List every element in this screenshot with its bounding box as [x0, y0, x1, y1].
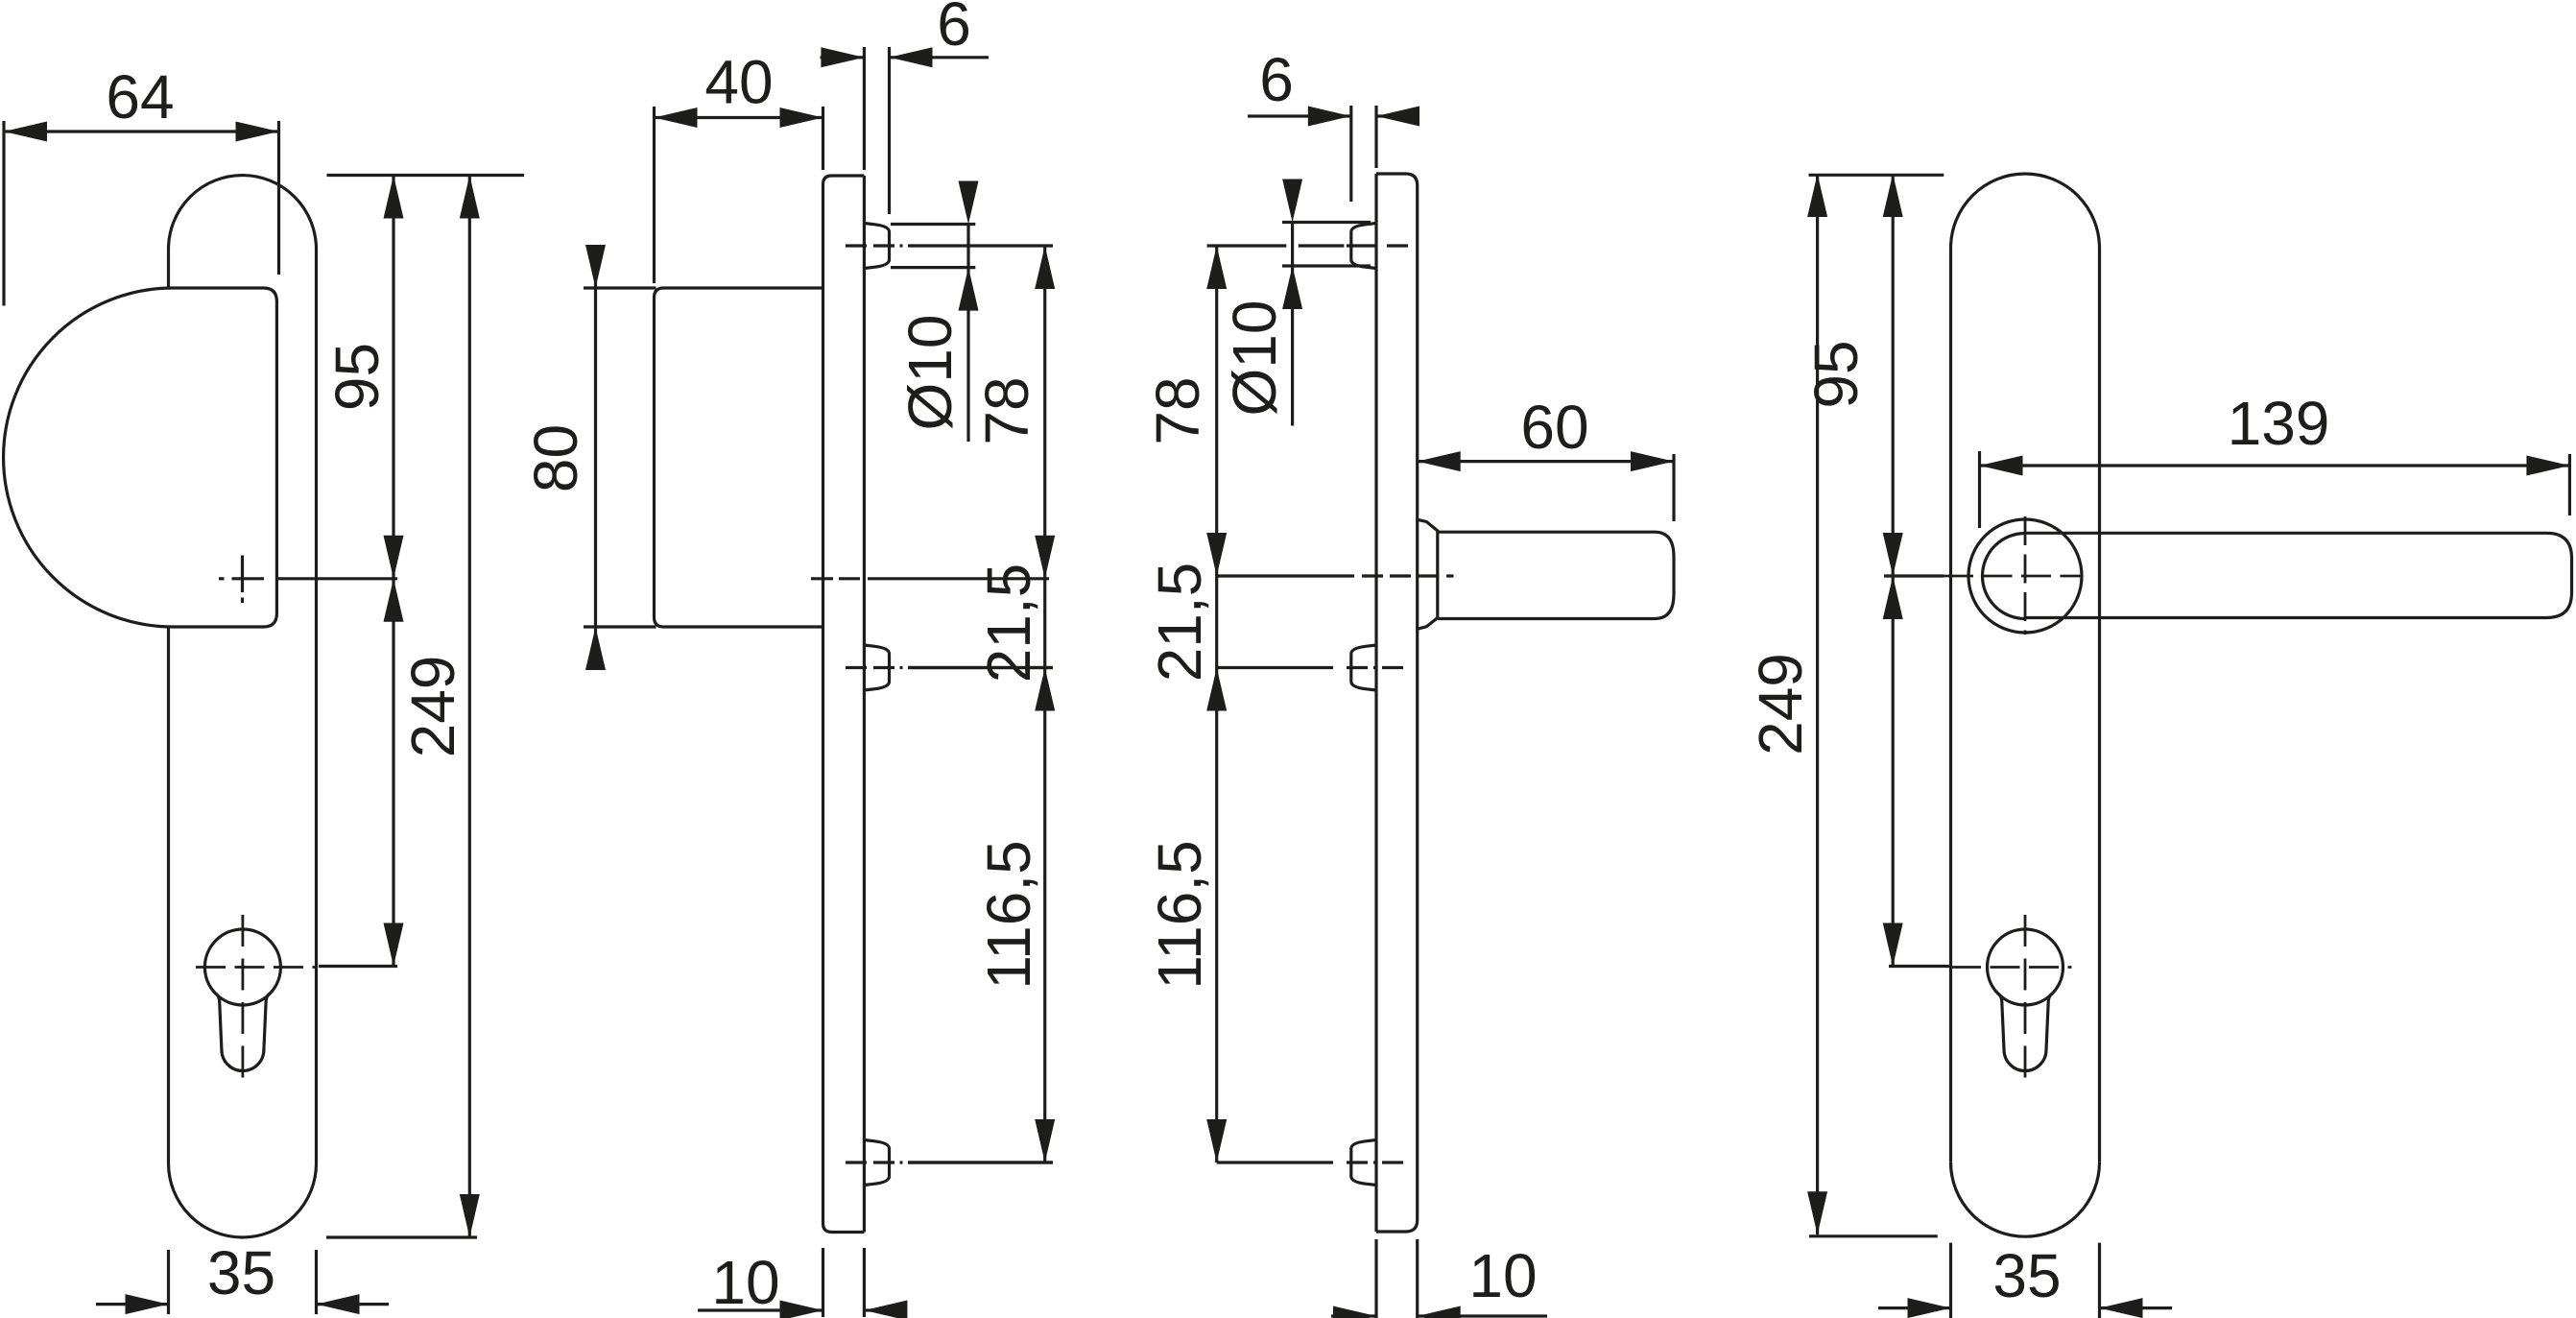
view1 spindle centre cross horizontal dot: [219, 577, 225, 580]
view4 plate outline top arch: [1951, 174, 2100, 249]
view1 dim 64 arrow right: [236, 122, 279, 142]
view3 lug3 centre line: [1217, 1161, 1333, 1163]
view1 keyhole slot: [216, 994, 270, 1070]
svg-text:139: 139: [2228, 389, 2330, 458]
view4 keyhole circle: [1988, 929, 2063, 1005]
view1 dim 35 arrow right: [317, 1294, 360, 1314]
view2 dim dia10 line top: [891, 223, 975, 226]
view2 dim 6 ext left: [863, 47, 866, 170]
view1 dim 249 top ext: [327, 174, 525, 177]
view2 dim 40 ext left: [653, 107, 656, 283]
view3 dim 60 arrow right: [1631, 451, 1674, 471]
svg-text:21,5: 21,5: [1145, 563, 1214, 683]
view1 dim 95 line: [392, 176, 394, 579]
view1 dim axis-keyhole arrow bottom: [384, 923, 404, 967]
view1 dim 35 arrow left: [126, 1294, 169, 1314]
view4 keyhole slot: [1998, 994, 2052, 1070]
view1 dim 249 line: [468, 176, 471, 1238]
view1 dim 95 arrow bottom: [384, 536, 404, 579]
view2 screw lug 3: [864, 1140, 889, 1186]
view4 dim 249 arrow bottom: [1807, 1191, 1827, 1234]
view4 dim 139 arrow left: [1980, 456, 2023, 476]
view3 dim 6 arrow right: [1376, 107, 1419, 127]
view4 dim 95 arrow top: [1883, 174, 1903, 217]
view3 dim dia10 arrow bottom: [1282, 266, 1302, 309]
view3 axis centre line: [1217, 574, 1354, 577]
view1 dim axis-keyhole arrow top: [384, 579, 404, 622]
view1 dim 35 line left: [96, 1303, 169, 1306]
view1 dim 249 bottom ext: [326, 1235, 477, 1238]
view3 dim 10 ext left: [1374, 1239, 1377, 1318]
svg-text:6: 6: [1259, 45, 1294, 114]
view2 screw lug 1: [864, 224, 889, 269]
view4 axis ext line: [1884, 574, 1944, 577]
view2 dim 10 ext right: [863, 1248, 866, 1317]
view3 grip side: [1438, 532, 1674, 618]
view4 dim 249 arrow top: [1807, 174, 1827, 217]
view3 lug2 centre line: [1217, 666, 1333, 669]
view1 dim 64 arrow left: [4, 122, 47, 142]
view4 dim 95 arrow bottom: [1883, 533, 1903, 576]
view4 dim 139 arrow right: [2526, 456, 2569, 476]
view2 dim dia10 vline: [966, 225, 969, 443]
view1 plate bottom arch: [169, 1163, 317, 1237]
view4 dim 35 arrow right: [2100, 1298, 2143, 1318]
view1 dim 35 ext right: [315, 1250, 318, 1314]
view3 plate side outline: [1376, 174, 1418, 1232]
view3 dim 78 line: [1215, 246, 1218, 1162]
view2 dim 40 arrow right: [780, 108, 823, 128]
view2 dim 6 line left: [821, 56, 865, 59]
view2 screw lug 2: [864, 645, 889, 690]
view3 dim 6 ext left: [1349, 106, 1352, 202]
view3 dim dia10 line bottom: [1282, 264, 1371, 267]
view4 boss centre line vertical: [2024, 516, 2027, 635]
view1 plate left edge lower: [167, 627, 170, 1163]
view2 lug2 ext line: [908, 666, 1053, 669]
view4 plate bottom arch: [1951, 1162, 2100, 1237]
view4 dim 139 ext right: [2568, 454, 2571, 515]
view3 handle collar: [1418, 519, 1438, 629]
view3 dim 60 arrow left: [1418, 451, 1461, 471]
svg-text:10: 10: [711, 1248, 779, 1317]
svg-text:21,5: 21,5: [974, 563, 1043, 683]
view3 dim 10 ext right: [1416, 1239, 1419, 1318]
view2 dim 6 ext right: [888, 47, 891, 214]
view2 plate right edge: [863, 176, 866, 1233]
view2 dim 10 line left: [698, 1308, 823, 1311]
view1 dim 249 arrow top: [460, 176, 480, 219]
view2 dim 80 ext top: [584, 286, 656, 289]
view1 keyhole centre line vertical: [241, 915, 244, 1090]
view2 screw lug 2 centre line: [846, 666, 867, 669]
svg-text:80: 80: [521, 424, 590, 492]
view2 hourglass arrow down at axis: [1035, 536, 1055, 579]
view2 knob side outline: [655, 288, 823, 627]
view3 dim 6 arrow left: [1308, 107, 1351, 127]
view4 dim 249 line: [1816, 174, 1819, 1234]
view4 dim 35 line right: [2100, 1306, 2173, 1309]
view3 dim 6 ext right: [1374, 106, 1377, 168]
view1 keyhole circle: [204, 929, 280, 1005]
view3 dim 78 arrow top: [1206, 246, 1227, 289]
view4 dim axis-keyhole arrow top: [1883, 576, 1903, 619]
view2 screw lug 1 centre line: [846, 244, 867, 247]
view4 boss centre line horizontal: [1944, 575, 2083, 578]
view3 dim 10 line left: [1331, 1314, 1376, 1317]
view3 dim 10 arrow right: [1418, 1306, 1461, 1318]
view2 dim 6 arrow left: [821, 47, 864, 67]
svg-text:Ø10: Ø10: [895, 315, 965, 431]
view4 dim 249 bottom ext: [1809, 1234, 1938, 1237]
view4 dim 249 top ext: [1809, 174, 1944, 177]
view4 keyhole centre line vertical: [2024, 915, 2027, 1090]
view4 dim 35 ext left: [1949, 1243, 1952, 1318]
view1 axis extension line: [278, 577, 397, 580]
view3 dim dia10 line top: [1282, 221, 1371, 224]
view2 dim 6 arrow right: [890, 47, 933, 67]
view4 dim 35 arrow left: [1908, 1298, 1951, 1318]
view2 dim 80 arrow bottom: [585, 627, 606, 670]
view3 dim 10 line right: [1418, 1314, 1547, 1317]
view4 dim 139 ext left: [1978, 451, 1981, 528]
view2 dim 10 line right: [864, 1308, 907, 1311]
view3 dim 10 arrow left: [1333, 1306, 1376, 1318]
view4 dim axis-keyhole arrow bottom: [1883, 923, 1903, 967]
view4 dim 35 ext right: [2098, 1243, 2101, 1318]
view2 dim 80 ext bottom: [584, 625, 656, 628]
view4 dim 139 line: [1980, 464, 2570, 467]
view4 plate left edge: [1949, 249, 1952, 1162]
view2 dim dia10 arrow top: [959, 181, 979, 225]
view3 plate left edge: [1374, 174, 1377, 1232]
view2 dim 6 line right: [890, 56, 990, 59]
svg-text:116,5: 116,5: [974, 840, 1043, 989]
svg-text:35: 35: [207, 1238, 275, 1307]
view2 dim dia10 arrow bottom: [959, 268, 979, 311]
svg-text:60: 60: [1520, 393, 1588, 462]
svg-text:78: 78: [1143, 376, 1212, 444]
view2 dim 78 line: [1043, 246, 1046, 1162]
view2 hourglass arrow up at lug2: [1035, 668, 1055, 711]
view4 dim axis-keyhole line: [1892, 576, 1895, 967]
svg-text:10: 10: [1468, 1241, 1537, 1310]
svg-text:78: 78: [972, 376, 1041, 444]
svg-text:116,5: 116,5: [1145, 840, 1214, 989]
view1 keyhole centre line horizontal: [196, 966, 317, 969]
view4 keyhole ext line: [1889, 965, 1949, 968]
view3 dim 60 line: [1418, 460, 1674, 463]
view1 spindle centre cross horizontal: [232, 577, 265, 580]
view3 dim 6 line left: [1248, 114, 1351, 117]
view4 handle boss circle: [1968, 519, 2082, 633]
view3 dim 6 line right: [1376, 114, 1419, 117]
view2 dim 116,5 arrow bottom: [1035, 1119, 1055, 1162]
view3 dim 116,5 arrow bottom: [1206, 1119, 1227, 1162]
view3 screw lug 1: [1351, 224, 1376, 269]
view1 dim 95 arrow top: [384, 176, 404, 219]
view3 screw lug 3: [1351, 1140, 1376, 1186]
svg-text:35: 35: [1992, 1241, 2061, 1310]
view2 dim 80 line: [594, 245, 597, 670]
view2 plate side outline: [823, 176, 865, 1233]
view3 dim dia10 arrow top: [1282, 180, 1302, 223]
view1 plate right edge: [315, 250, 318, 1164]
view2 dim 10 arrow left: [780, 1301, 823, 1318]
svg-text:95: 95: [1801, 340, 1871, 408]
view3 lug1 centre line: [1207, 244, 1287, 247]
view4 grip bar: [2025, 533, 2572, 617]
svg-text:95: 95: [322, 343, 392, 411]
view4 dim 95 line: [1892, 174, 1895, 576]
view2 dim 10 ext left: [822, 1248, 824, 1317]
view2 axis ext line: [811, 577, 833, 580]
view2 dim 78 arrow top: [1035, 246, 1055, 289]
view2 dim 10 arrow right: [864, 1301, 907, 1318]
view1 dim 35 line right: [317, 1303, 390, 1306]
view1 dim 35 ext left: [167, 1250, 170, 1314]
view1 dim 249 arrow bottom: [460, 1194, 480, 1237]
view2 dim 40 arrow left: [655, 108, 698, 128]
view3 dim 60 ext right: [1672, 454, 1675, 521]
view3 dim dia10 vline: [1291, 223, 1294, 426]
view1 keyhole extension line: [319, 965, 397, 968]
svg-text:64: 64: [106, 62, 174, 132]
view1 plate outline top arch: [169, 176, 317, 250]
svg-text:40: 40: [704, 48, 773, 117]
view3 hourglass arrow up at lug2: [1206, 668, 1227, 711]
svg-text:Ø10: Ø10: [1220, 300, 1289, 417]
view2 dim 80 arrow top: [585, 245, 606, 288]
view2 screw lug 3 centre line: [846, 1161, 867, 1163]
view2 lug3 ext line: [908, 1161, 1053, 1163]
view4 dim 35 line left: [1878, 1306, 1951, 1309]
svg-text:249: 249: [398, 656, 467, 758]
view1 dim 64 line: [4, 130, 279, 132]
view1 dim axis-keyhole line: [392, 579, 394, 967]
view3 hourglass arrow down at axis: [1206, 533, 1227, 576]
view2 dim dia10 line bottom: [891, 266, 975, 269]
view2 dim 40 line: [655, 116, 823, 119]
view1 dim 64 ext left: [2, 121, 5, 306]
view1 spindle centre cross vertical dot: [241, 598, 244, 604]
view1 dim 64 ext right: [277, 121, 280, 275]
view4 plate right edge: [2098, 249, 2101, 1162]
view4 keyhole centre line horizontal: [1951, 966, 2072, 969]
view1 knob outline: [4, 288, 277, 627]
view1 spindle centre cross vertical: [241, 556, 244, 593]
svg-text:249: 249: [1746, 653, 1815, 755]
svg-text:6: 6: [937, 0, 971, 59]
view1 plate left edge upper: [167, 250, 170, 289]
view3 screw lug 2: [1351, 645, 1376, 690]
view4 grip end cap arc: [1983, 534, 2026, 619]
view2 dim 40 ext right: [822, 107, 824, 170]
